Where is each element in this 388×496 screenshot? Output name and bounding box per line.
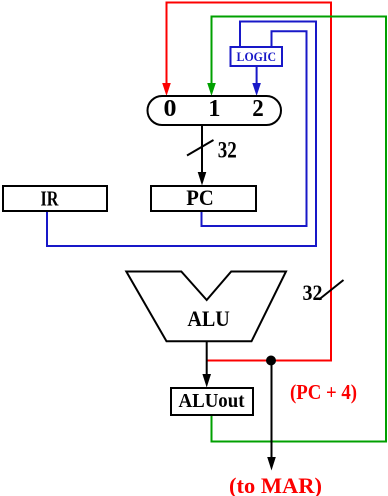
svg-text:0: 0	[164, 95, 177, 122]
svg-text:(to MAR): (to MAR)	[229, 473, 322, 496]
svg-text:32: 32	[303, 280, 323, 305]
svg-text:ALUout: ALUout	[179, 390, 245, 412]
svg-text:IR: IR	[41, 187, 59, 211]
svg-text:32: 32	[218, 138, 237, 163]
svg-text:LOGIC: LOGIC	[237, 50, 277, 64]
svg-text:2: 2	[252, 95, 264, 122]
svg-text:ALU: ALU	[187, 306, 230, 331]
svg-text:1: 1	[208, 95, 220, 122]
svg-text:PC: PC	[186, 185, 214, 210]
svg-text:(PC + 4): (PC + 4)	[290, 380, 357, 404]
